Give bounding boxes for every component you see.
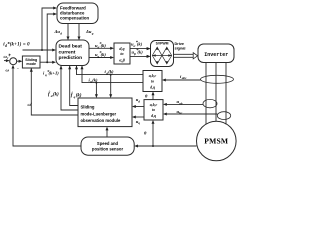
- svg-text:a,b,c: a,b,c: [150, 103, 158, 107]
- svg-text:q: q: [92, 31, 94, 35]
- svg-text:(k): (k): [137, 50, 143, 55]
- svg-text:mode-Luenberger: mode-Luenberger: [81, 111, 117, 116]
- svg-text:PMSM: PMSM: [204, 137, 228, 146]
- svg-text:d: d: [60, 31, 62, 35]
- svg-text:prediction: prediction: [59, 55, 83, 61]
- svg-text:Drive: Drive: [175, 42, 185, 46]
- svg-text:(k): (k): [76, 94, 82, 99]
- svg-text:α,β: α,β: [119, 57, 125, 62]
- svg-text:Inverter: Inverter: [204, 52, 228, 58]
- svg-text:(k): (k): [101, 43, 107, 48]
- svg-text:Dead beat: Dead beat: [59, 44, 83, 50]
- svg-text:d,q: d,q: [150, 86, 155, 90]
- svg-text:Sliding: Sliding: [81, 105, 95, 110]
- svg-text:to: to: [120, 51, 123, 56]
- svg-text:q: q: [138, 121, 140, 125]
- svg-text:d,q: d,q: [119, 46, 124, 51]
- svg-text:(k): (k): [53, 92, 59, 97]
- svg-text:Speed and: Speed and: [97, 141, 119, 146]
- svg-text:ab: ab: [179, 101, 183, 105]
- svg-text:bc: bc: [179, 111, 183, 115]
- svg-text:mode: mode: [26, 62, 36, 66]
- svg-text:d,q: d,q: [151, 114, 156, 118]
- svg-text:compensation: compensation: [60, 15, 90, 20]
- svg-text:SVPWM: SVPWM: [156, 42, 169, 46]
- svg-text:observation module: observation module: [81, 118, 121, 123]
- svg-text:abc: abc: [182, 76, 187, 80]
- svg-text:(k): (k): [137, 42, 143, 47]
- svg-text:(k+1): (k+1): [49, 71, 60, 76]
- svg-text:to: to: [152, 108, 155, 112]
- svg-text:signal: signal: [175, 46, 186, 50]
- svg-text:d: d: [138, 99, 140, 103]
- svg-text:current: current: [59, 49, 76, 55]
- svg-text:(k): (k): [101, 52, 107, 57]
- svg-text:to: to: [151, 79, 154, 83]
- svg-text:*(k+1) = 0: *(k+1) = 0: [7, 42, 30, 47]
- svg-text:a,b,c: a,b,c: [149, 74, 157, 78]
- svg-text:position sensor: position sensor: [92, 146, 124, 151]
- svg-text:(k): (k): [92, 77, 98, 82]
- svg-text:(k): (k): [108, 69, 114, 74]
